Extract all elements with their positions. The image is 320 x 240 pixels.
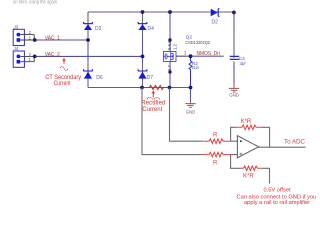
ground symbol at bus (185, 100, 195, 107)
diode D6 (84, 69, 93, 78)
junction top C4 corner (232, 11, 236, 15)
grey pin stubs D2 (205, 11, 225, 13)
svg-text:R: R (213, 161, 218, 167)
grey sense wire right (170, 88, 204, 142)
junction VAC_2 second rail (141, 55, 145, 59)
svg-text:D3: D3 (95, 26, 102, 32)
wire gate / NMOS_Dri (176, 55, 224, 57)
junction bus shunt right (168, 86, 172, 90)
grey sense wire left (142, 88, 203, 155)
svg-text:511k: 511k (192, 65, 200, 70)
svg-text:Rectified: Rectified (141, 100, 165, 106)
svg-text:4,7: 4,7 (167, 65, 172, 72)
wire VAC_1 (35, 39, 88, 41)
shunt resistor (rectified current) (146, 85, 167, 89)
svg-text:K*R: K*R (243, 174, 254, 180)
diode D7 (138, 69, 147, 78)
grey pin stubs D7 (142, 63, 144, 87)
rectified sine glyph (147, 97, 160, 99)
junction J3 pin node (33, 38, 37, 42)
svg-text:CT Secondary: CT Secondary (45, 75, 81, 81)
junction J4 pin node (33, 55, 37, 59)
grey pin stubs D3 (87, 14, 89, 38)
wire C4 column (233, 12, 235, 84)
diode D4 (138, 22, 147, 30)
CT sine glyph (60, 66, 68, 70)
grey opamp input stubs (231, 141, 238, 154)
svg-text:3: 3 (184, 50, 187, 55)
junction Q2 source pins (168, 70, 171, 73)
grey feedback wire left (231, 127, 237, 141)
svg-text:VAC_1: VAC_1 (45, 36, 60, 42)
wire VAC_2 (35, 55, 143, 57)
svg-text:D2: D2 (212, 19, 219, 25)
svg-text:GND: GND (229, 93, 239, 98)
svg-text:D4: D4 (148, 26, 155, 32)
resistor K*R feedback (236, 125, 260, 130)
svg-text:0.5V offset: 0.5V offset (264, 187, 292, 193)
svg-text:J4: J4 (14, 46, 19, 51)
svg-text:J3: J3 (14, 24, 19, 29)
grey 0.5V stub (262, 168, 269, 183)
grey bottom branch (231, 155, 242, 169)
junction VAC_1 left rail (86, 38, 90, 42)
grey pin stubs D6 (87, 63, 89, 87)
diode D2 (211, 9, 220, 17)
svg-text:VAC_2: VAC_2 (45, 52, 60, 58)
arrow CT secondary current (63, 61, 65, 64)
junction top Q2 column (168, 10, 172, 14)
resistor R lower (203, 152, 230, 157)
wire bottom bus (88, 87, 191, 89)
capacitor C4 (230, 56, 240, 59)
svg-text:CSD13202Q2: CSD13202Q2 (185, 40, 210, 46)
connector J3 (13, 29, 34, 45)
svg-text:GND: GND (186, 109, 196, 114)
resistor R2 (189, 56, 192, 87)
svg-text:D6: D6 (96, 75, 103, 81)
svg-text:Current: Current (54, 81, 71, 87)
junction bus shunt left (140, 86, 144, 90)
junction Q2 drain pins (168, 38, 171, 41)
wire Q2 drain column (169, 12, 171, 52)
svg-text:Current: Current (142, 107, 162, 113)
svg-text:NMOS_Dri: NMOS_Dri (197, 51, 221, 57)
transistor Q2 (163, 51, 176, 61)
wire top bus (88, 11, 234, 13)
junction bus R2 GND (189, 86, 193, 90)
svg-text:R: R (213, 132, 218, 138)
svg-text:To ADC: To ADC (284, 138, 306, 145)
grey pin stubs D4 (142, 14, 144, 38)
op-amp U1 (237, 136, 258, 158)
connector J4 (13, 51, 34, 67)
wire GND stub at bus (190, 88, 192, 101)
ground symbol at C4 (229, 84, 239, 92)
grey output wire (259, 146, 306, 148)
wire second bridge rail (142, 12, 144, 88)
svg-text:on here, using the again: on here, using the again (13, 0, 57, 6)
grey pin stub C4 (233, 33, 235, 58)
svg-text:apply a rail to rail amplifier: apply a rail to rail amplifier (244, 200, 310, 206)
svg-text:10µF: 10µF (239, 61, 246, 66)
arrow rectified current (152, 93, 154, 97)
svg-text:Q2: Q2 (186, 34, 193, 40)
svg-text:K*R: K*R (241, 119, 252, 125)
resistor K*R offset (241, 166, 262, 171)
svg-text:D7: D7 (147, 75, 154, 81)
resistor R upper (203, 139, 230, 144)
svg-text:1,2: 1,2 (172, 43, 177, 50)
wire left bridge rail (87, 12, 89, 88)
wire Q2 source column (169, 62, 171, 88)
junction top second rail (141, 10, 145, 14)
diode D3 (84, 22, 93, 30)
junction gate R2 (189, 54, 193, 58)
grey feedback wire right (260, 127, 269, 147)
grey pin stubs Q2 (170, 40, 186, 72)
